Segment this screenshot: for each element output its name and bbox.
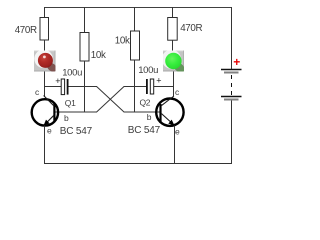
svg-text:c: c [175, 87, 180, 97]
wire Q1 base rail [55, 111, 97, 113]
svg-text:470R: 470R [15, 25, 37, 36]
LED D2 (green) [162, 50, 187, 75]
capacitor C2 100u [146, 79, 154, 94]
svg-text:BC 547: BC 547 [128, 125, 161, 136]
svg-text:e: e [47, 125, 52, 135]
svg-text:c: c [35, 87, 40, 97]
svg-text:Q1: Q1 [65, 98, 76, 108]
capacitor C1 100u [61, 79, 68, 95]
wire R3 to Q2 base rail [134, 60, 136, 113]
svg-text:Q2: Q2 [140, 98, 151, 108]
svg-text:10k: 10k [91, 50, 106, 61]
wire R1 to LED D1 [44, 40, 46, 51]
wire cross-couple diagonal Q1 base to C2 [97, 87, 124, 113]
wire battery positive lead [231, 7, 233, 69]
wire Q1 emitter to ground rail [44, 126, 46, 165]
resistor R3 10k body [131, 31, 140, 60]
svg-text:10k: 10k [115, 36, 130, 47]
wire cross-over corner to C2 [124, 86, 147, 88]
wire R2 top lead [84, 7, 86, 33]
svg-text:BC 547: BC 547 [60, 126, 93, 137]
transistor Q2 (BC547) [156, 96, 183, 126]
resistor R2 10k body [80, 33, 89, 62]
wire C2 to Q2 collector [154, 86, 174, 88]
wire cross-couple diagonal C1 to Q2 base [97, 87, 124, 113]
wire battery negative lead [231, 101, 233, 165]
svg-text:100u: 100u [138, 65, 158, 76]
wire R4 top lead [172, 7, 174, 18]
LED D1 (red) [34, 50, 58, 74]
wire R3 top lead [134, 7, 136, 32]
svg-text:+: + [55, 76, 60, 86]
wire Q1 collector to C1 (left plate lead) [44, 86, 61, 88]
wire LED D1 to Q1 collector [44, 72, 46, 97]
svg-text:+: + [156, 76, 161, 86]
svg-text:470R: 470R [180, 23, 202, 34]
wire Q2 base rail [124, 111, 160, 113]
svg-text:+: + [233, 55, 240, 69]
svg-text:e: e [175, 127, 180, 137]
resistor R1 470R body [40, 18, 49, 41]
svg-text:b: b [64, 113, 69, 123]
wire C1 to cross-over corner [69, 86, 98, 88]
wire R1 top lead [44, 7, 46, 18]
wire LED D2 to Q2 collector [173, 72, 175, 97]
transistor Q1 (BC547) [32, 96, 58, 126]
wire ground bottom rail [44, 163, 232, 165]
resistor R4 470R body [168, 18, 178, 41]
battery BT1 [221, 70, 242, 101]
wire R4 to LED D2 [172, 40, 174, 51]
wire Q2 emitter to ground rail [174, 126, 176, 165]
wire V+ top rail [44, 7, 232, 9]
svg-text:100u: 100u [62, 68, 82, 79]
wire R2 to Q1 base rail [84, 61, 86, 113]
svg-text:b: b [147, 112, 152, 122]
